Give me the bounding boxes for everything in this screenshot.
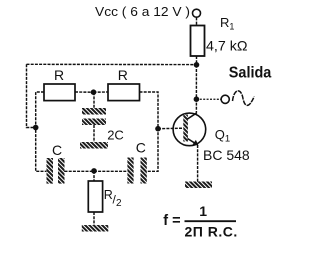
svg-text:f =: f =: [163, 213, 180, 229]
node left input junction: [33, 125, 39, 131]
wire right R to base node: [140, 92, 159, 171]
svg-text:C: C: [52, 142, 62, 158]
wire Vcc terminal to R1: [196, 17, 198, 25]
wire top rail: [27, 63, 197, 65]
output terminal: [221, 95, 229, 103]
wire feedback left side: [27, 64, 36, 127]
resistor R1: [191, 26, 205, 57]
transistor Q1 emitter stroke: [188, 139, 198, 145]
wire collector: [195, 65, 197, 113]
capacitor 2C plate top: [82, 108, 106, 115]
wire left node vertical: [36, 92, 47, 171]
ground under R half: [82, 225, 109, 232]
wire emitter: [197, 145, 199, 182]
node collector junction: [194, 62, 200, 68]
wire bottom rail: [65, 170, 128, 172]
ground under emitter: [185, 182, 212, 189]
svg-text:C: C: [136, 140, 146, 156]
svg-text:2C: 2C: [107, 128, 124, 143]
Vcc terminal: [193, 9, 201, 17]
svg-text:2Π R.C.: 2Π R.C.: [185, 224, 238, 240]
formula fraction bar: [185, 220, 237, 222]
svg-text:R: R: [104, 188, 113, 202]
svg-text:R: R: [118, 67, 128, 83]
wire output tap: [196, 98, 221, 100]
wire 2C to ground: [93, 125, 95, 142]
wire R1 to collector node: [196, 56, 198, 65]
svg-text:4,7 kΩ: 4,7 kΩ: [206, 38, 248, 54]
svg-text:2: 2: [116, 198, 122, 209]
capacitor C right plate A: [127, 158, 133, 184]
resistor R left: [44, 84, 75, 101]
transistor Q1 base bar: [183, 115, 188, 142]
capacitor C left plate B: [58, 158, 65, 184]
node base junction: [155, 126, 161, 132]
svg-text:1: 1: [199, 203, 207, 219]
svg-text:BC 548: BC 548: [203, 147, 250, 163]
sine wave symbol: [233, 91, 255, 106]
wire base: [158, 127, 183, 130]
transistor Q1 collector stroke: [188, 113, 197, 119]
node bottom rail junction: [91, 168, 97, 174]
capacitor C right plate B: [141, 158, 147, 184]
svg-text:R: R: [54, 67, 64, 83]
wire center node to right R: [94, 91, 109, 93]
capacitor 2C plate bottom: [82, 119, 106, 126]
capacitor C left plate A: [47, 158, 54, 184]
transistor Q1 emitter arrow: [193, 140, 199, 146]
svg-text:Vcc ( 6 a 12 V ): Vcc ( 6 a 12 V ): [95, 4, 190, 19]
transistor Q1 circle: [173, 113, 206, 146]
wire junction to R half: [93, 171, 95, 181]
wire left R to center node: [75, 91, 94, 93]
wire center node to 2C: [93, 92, 95, 108]
svg-text:Salida: Salida: [229, 64, 272, 81]
resistor R/2: [88, 181, 102, 212]
ground under 2C: [80, 142, 108, 149]
node output junction: [194, 96, 200, 102]
resistor R right: [108, 84, 140, 101]
node center R junction: [91, 89, 97, 95]
wire R half to ground: [93, 212, 95, 225]
